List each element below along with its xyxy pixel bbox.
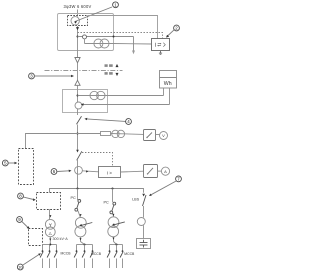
- svg-text:V: V: [162, 133, 165, 138]
- svg-text:2: 2: [175, 26, 178, 31]
- svg-text:6: 6: [53, 169, 56, 174]
- svg-text:3φ3W 6 600V: 3φ3W 6 600V: [64, 4, 92, 9]
- svg-text:A: A: [164, 169, 167, 174]
- svg-text:5: 5: [4, 161, 7, 166]
- svg-text:PC: PC: [104, 200, 110, 204]
- svg-text:10: 10: [18, 265, 23, 270]
- svg-text:PC: PC: [71, 196, 77, 200]
- svg-text:MCCB: MCCB: [61, 252, 72, 256]
- svg-text:300 kV·A: 300 kV·A: [53, 237, 69, 241]
- svg-text:MCCB: MCCB: [124, 252, 135, 256]
- svg-text:MCCB: MCCB: [91, 252, 102, 256]
- svg-text:9: 9: [18, 217, 21, 222]
- svg-text:1: 1: [114, 3, 117, 8]
- svg-text:3: 3: [30, 74, 33, 79]
- svg-text:8: 8: [19, 194, 22, 199]
- svg-text:LBS: LBS: [132, 198, 139, 202]
- svg-text:7: 7: [177, 177, 180, 182]
- svg-text:I >: I >: [107, 171, 112, 176]
- svg-text:△: △: [49, 230, 53, 235]
- svg-text:4: 4: [127, 119, 130, 124]
- svg-text:Wh: Wh: [164, 81, 172, 87]
